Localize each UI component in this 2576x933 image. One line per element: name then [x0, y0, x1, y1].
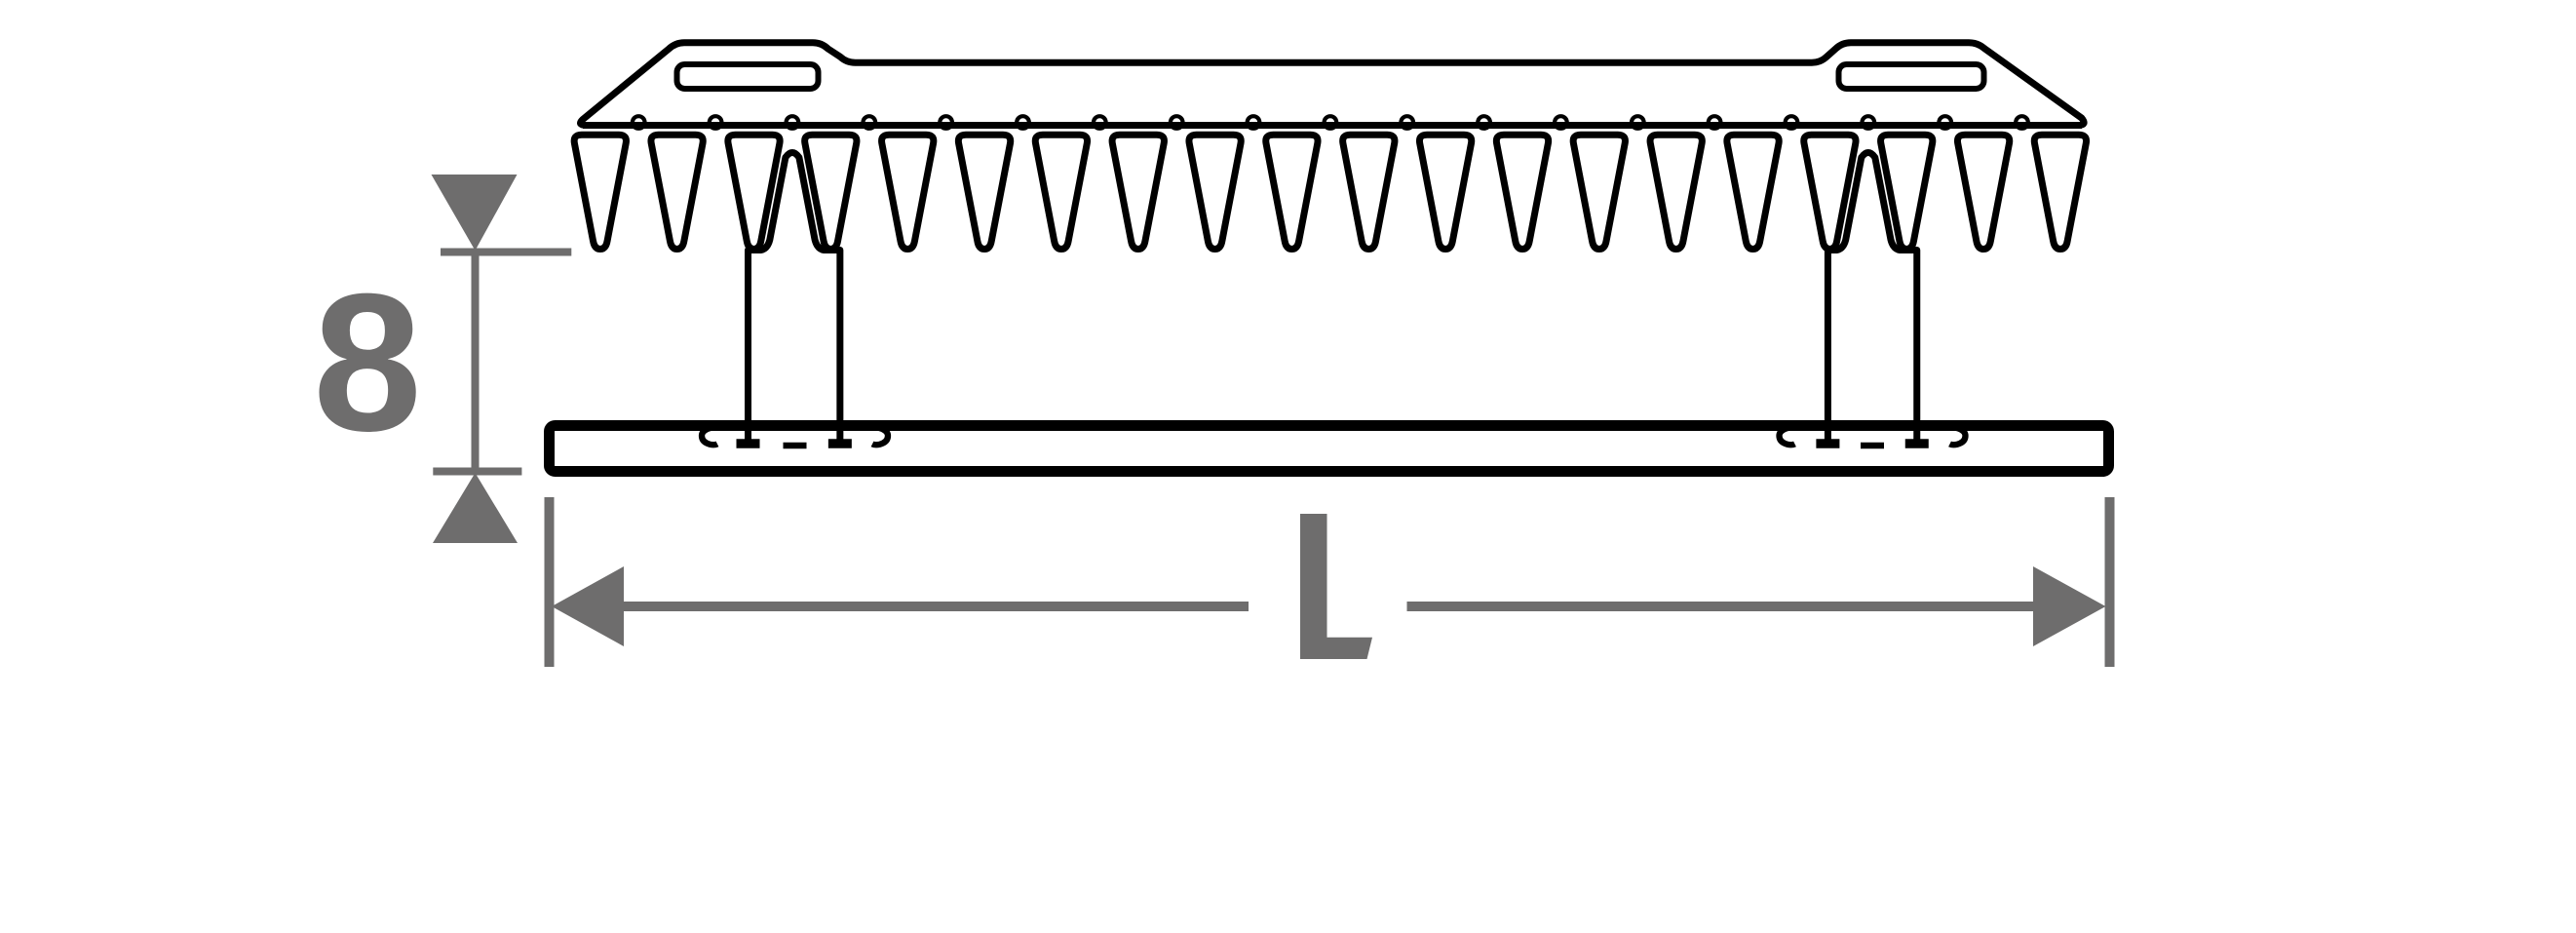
svg-text:8: 8	[313, 253, 422, 472]
